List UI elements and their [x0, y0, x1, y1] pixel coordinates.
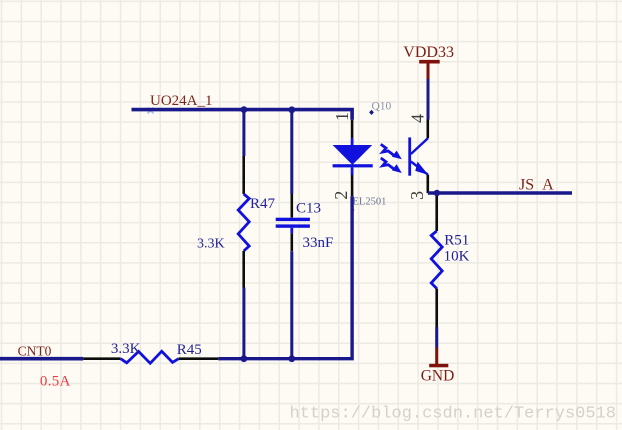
- svg-text:EL2501: EL2501: [353, 196, 387, 207]
- svg-text:R51: R51: [444, 233, 469, 249]
- svg-text:C13: C13: [296, 201, 321, 217]
- light arrow 2: [381, 158, 402, 173]
- capacitor C13: [276, 194, 310, 251]
- node junction bottom C13: [288, 355, 295, 362]
- ground GND: [421, 348, 455, 385]
- svg-text:JS A: JS A: [519, 176, 554, 193]
- svg-text:Q10: Q10: [372, 101, 392, 113]
- svg-text:0.5A: 0.5A: [40, 373, 71, 389]
- svg-text:10K: 10K: [444, 248, 470, 264]
- resistor R47: [238, 156, 249, 288]
- svg-text:4: 4: [407, 114, 427, 123]
- optocoupler Q10 pin 2: [351, 175, 354, 196]
- node junction bottom R47: [241, 355, 248, 362]
- wire R47 bottom: [242, 288, 245, 359]
- svg-text:3: 3: [407, 191, 427, 200]
- svg-text:33nF: 33nF: [303, 235, 334, 251]
- svg-text:1: 1: [332, 112, 352, 121]
- wire bottom to opto pin2: [218, 196, 352, 358]
- wire VDD33 to pin4: [427, 79, 430, 120]
- power VDD33: [403, 44, 454, 79]
- LED diode of optocoupler Q10: [333, 138, 373, 175]
- svg-text:R45: R45: [177, 342, 202, 358]
- optocoupler Q10 pin 3: [426, 175, 429, 193]
- svg-text:GND: GND: [421, 367, 455, 384]
- wire R47 top stub: [242, 110, 245, 156]
- wire UO24A_1 top horizontal: [132, 110, 353, 120]
- svg-text:VDD33: VDD33: [403, 44, 454, 61]
- resistor R51: [431, 193, 442, 327]
- resistor R45: [83, 351, 218, 363]
- svg-text:CNT0: CNT0: [18, 344, 52, 359]
- svg-text:2: 2: [331, 191, 351, 200]
- svg-text:3.3K: 3.3K: [197, 236, 225, 251]
- optocoupler Q10 pin 1: [351, 120, 354, 138]
- node junction top R47: [241, 106, 248, 113]
- svg-text:https://blog.csdn.net/Terrys05: https://blog.csdn.net/Terrys0518: [290, 404, 616, 423]
- light arrow 1: [381, 144, 402, 159]
- svg-text:R47: R47: [250, 196, 276, 212]
- svg-text:3.3K: 3.3K: [111, 341, 141, 357]
- optocoupler Q10 pin 4: [426, 120, 429, 139]
- phototransistor of optocoupler Q10: [410, 137, 429, 175]
- net label anchor cross: [148, 108, 154, 114]
- wire CNT0 bottom left: [0, 357, 83, 361]
- wire C13 top stub: [290, 110, 293, 194]
- designator anchor dot: [369, 110, 374, 115]
- node junction top C13: [288, 106, 295, 113]
- wire C13 bottom: [290, 251, 293, 359]
- svg-text:UO24A_1: UO24A_1: [150, 93, 213, 109]
- wire R51 to GND: [435, 327, 438, 348]
- node junction pin3/R51: [434, 190, 440, 196]
- wire JS_A horizontal: [428, 191, 572, 195]
- part origin dot: [351, 209, 354, 212]
